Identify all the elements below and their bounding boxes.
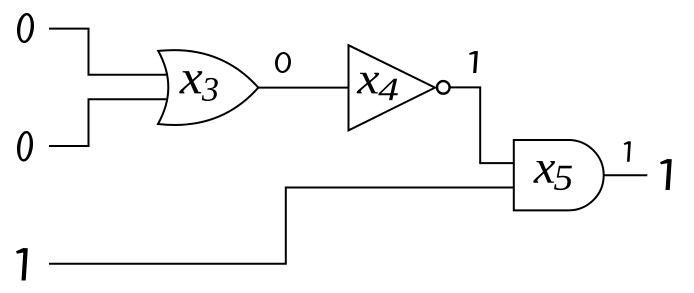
wire: inverter output to AND gate top input [450,87,515,163]
and-gate X5 [514,140,604,210]
input label 1 (bottom-left) [16,248,28,281]
inverter X4 triangle [349,45,436,130]
input label 0 (top-left) [17,13,34,43]
node value 1 (inverter output) [469,51,478,73]
wire: top-left input lead to OR gate top input [49,29,169,75]
label x4: letter x [357,73,379,94]
node value 1 (AND gate output) [624,141,631,162]
node value 0 (OR gate output) [275,52,291,73]
wire: AND gate output lead [604,174,647,176]
wire: bottom input lead to AND gate bottom input [49,188,515,264]
label x4: subscript 4 [378,79,398,100]
label x3: letter x [179,71,202,93]
or-gate X3 [158,50,258,125]
input label 0 (mid-left) [17,131,33,162]
label x5: letter x [533,161,555,183]
wire: mid-left input lead to OR gate bottom input [49,99,169,146]
inverter X4 bubble [437,81,450,94]
output label 1 (right) [660,159,672,190]
label x3: subscript 3 [202,78,218,101]
wire: OR gate output to inverter input [258,87,350,89]
label x5: subscript 5 [554,166,572,190]
